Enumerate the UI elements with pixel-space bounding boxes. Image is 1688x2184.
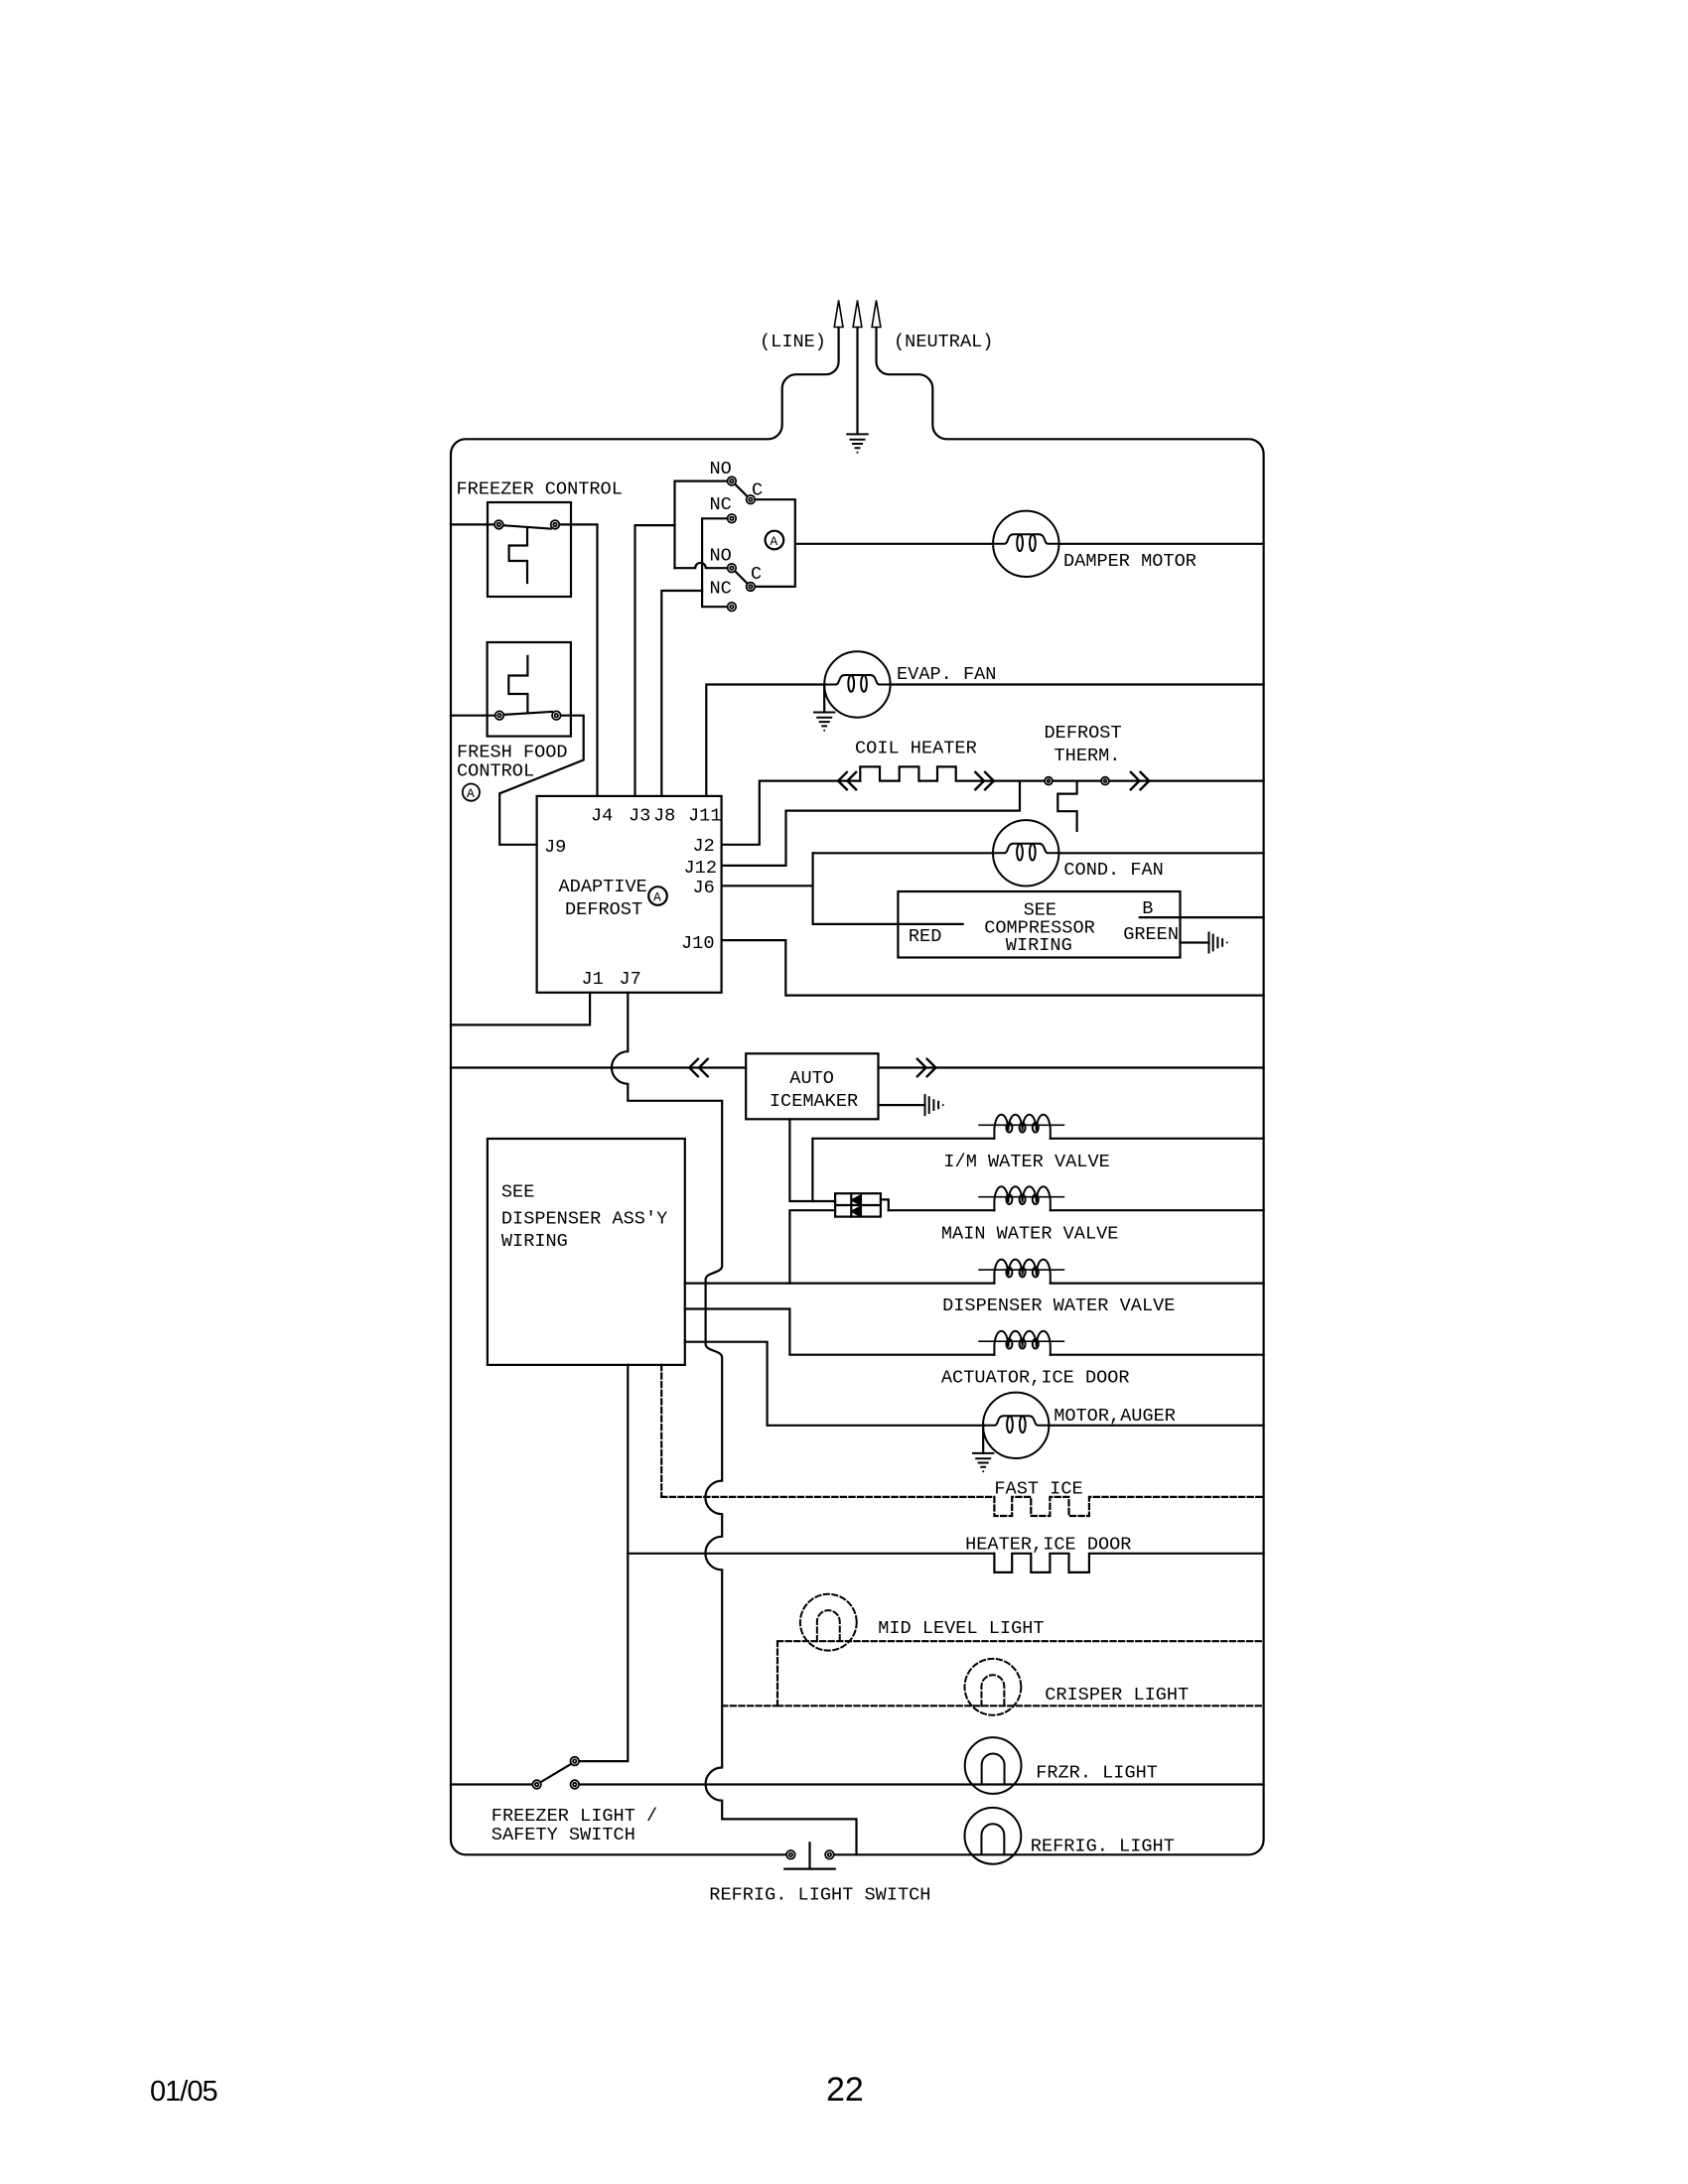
- connector chevrons after defrost thermostat: [1131, 772, 1140, 789]
- wire: left border to fresh food control: [451, 715, 495, 717]
- terminal safety switch left: [532, 1780, 541, 1789]
- terminal fresh food left: [495, 711, 504, 720]
- terminal C1: [747, 495, 756, 504]
- svg-text:AUTO: AUTO: [789, 1068, 834, 1089]
- wire: check valve to main water valve: [889, 1209, 995, 1211]
- svg-text:A: A: [467, 786, 475, 801]
- terminal NC1: [728, 514, 737, 523]
- safety switch blade: [540, 1764, 570, 1782]
- wire: cond fan to right border: [1058, 852, 1263, 854]
- coil heater element: [860, 766, 1045, 780]
- wire: freezer control to J4: [559, 524, 597, 796]
- damper motor: [993, 511, 1058, 577]
- svg-text:A: A: [770, 534, 777, 549]
- evap fan motor: [824, 651, 890, 717]
- svg-text:NC: NC: [710, 494, 732, 515]
- svg-text:J7: J7: [620, 969, 641, 990]
- wire: icemaker ground lead: [879, 1104, 925, 1106]
- wire: auger motor to right border: [1049, 1425, 1263, 1427]
- wire: fast ice dashed branch: [661, 1365, 1263, 1516]
- wire: left border to freezer light safety switch: [451, 1783, 532, 1785]
- svg-text:NO: NO: [710, 459, 732, 479]
- svg-text:NC: NC: [710, 579, 732, 600]
- svg-text:FREEZER CONTROL: FREEZER CONTROL: [457, 479, 623, 500]
- freezer control box: [488, 502, 571, 597]
- wire: defrost thermostat to right border: [1109, 779, 1264, 781]
- svg-text:DEFROST: DEFROST: [565, 899, 642, 920]
- wire: dispenser box to ice door actuator: [685, 1309, 995, 1355]
- terminal safety switch upper: [571, 1757, 580, 1766]
- wire: safety switch to freezer light and right border: [579, 1783, 1264, 1785]
- wire: dispenser box to dispenser water valve: [685, 1282, 995, 1284]
- heater ice door element: [994, 1554, 1263, 1572]
- svg-text:01/05: 01/05: [150, 2076, 217, 2108]
- check valve arrow lower: [852, 1207, 861, 1217]
- wire: branch up to I/M water valve: [812, 1139, 994, 1201]
- terminal NO2: [728, 564, 737, 573]
- wire: main water valve to right border: [1051, 1209, 1264, 1211]
- wire: between defrost thermostat terminals: [1053, 779, 1101, 781]
- refrig light lamp: [965, 1808, 1022, 1864]
- freezer control zigzag sensor: [509, 528, 527, 583]
- connector chevrons icemaker feed: [689, 1059, 698, 1076]
- check valve divider: [835, 1193, 881, 1216]
- svg-text:B: B: [1142, 898, 1153, 919]
- svg-text:RED: RED: [909, 926, 941, 947]
- wire: dispenser box to auger motor: [685, 1342, 984, 1426]
- fresh food control switch blade: [503, 712, 552, 715]
- wire: J10 to right border: [722, 940, 1264, 996]
- wire: B lead to right border: [1140, 916, 1264, 918]
- wire: fresh food control to J9: [499, 716, 584, 845]
- crisper light lamp dashed: [965, 1659, 1022, 1715]
- svg-text:CONTROL: CONTROL: [457, 761, 534, 782]
- svg-text:SEE: SEE: [501, 1182, 534, 1203]
- svg-text:J9: J9: [544, 837, 566, 858]
- svg-text:J3: J3: [629, 806, 650, 827]
- terminal defrost thermostat right: [1101, 777, 1109, 785]
- svg-text:SAFETY SWITCH: SAFETY SWITCH: [492, 1825, 635, 1845]
- wire: J12 riser to coil heater line: [722, 781, 1020, 866]
- svg-text:FRZR. LIGHT: FRZR. LIGHT: [1036, 1763, 1158, 1784]
- circled A relay: [766, 531, 784, 550]
- svg-text:(LINE): (LINE): [760, 332, 826, 352]
- svg-text:HEATER,ICE DOOR: HEATER,ICE DOOR: [965, 1535, 1131, 1556]
- terminal safety switch right: [571, 1780, 580, 1789]
- svg-text:J1: J1: [582, 969, 604, 990]
- wire: J3 to relay bracket: [635, 525, 675, 796]
- svg-text:WIRING: WIRING: [501, 1231, 568, 1252]
- svg-text:C: C: [751, 564, 762, 585]
- relay blade 2: [735, 572, 747, 584]
- circled A fresh food: [463, 784, 480, 801]
- svg-text:COIL HEATER: COIL HEATER: [855, 739, 977, 759]
- check valve arrow upper: [852, 1195, 861, 1204]
- wire: actuator to right border: [1051, 1354, 1264, 1356]
- circled A adaptive defrost: [648, 887, 667, 905]
- wire: tie to cond fan: [813, 852, 994, 854]
- freezer light lamp: [965, 1737, 1022, 1794]
- freezer control switch blade: [503, 525, 551, 528]
- connector chevrons coil heater right: [975, 772, 984, 789]
- ground: icemaker chassis ground: [925, 1095, 944, 1115]
- terminal fresh food right: [552, 711, 561, 720]
- fresh food control box: [488, 642, 571, 737]
- svg-text:CRISPER LIGHT: CRISPER LIGHT: [1045, 1685, 1189, 1706]
- actuator ice door coil: [979, 1331, 1063, 1355]
- cond fan motor: [993, 820, 1058, 886]
- wire: check valve lower feed: [789, 1210, 835, 1283]
- plug prong NEUTRAL: [872, 301, 881, 328]
- svg-text:REFRIG. LIGHT SWITCH: REFRIG. LIGHT SWITCH: [709, 1885, 930, 1906]
- terminal freezer control left: [494, 520, 503, 529]
- svg-text:J2: J2: [693, 836, 715, 857]
- auto icemaker box: [746, 1053, 878, 1119]
- svg-text:ICEMAKER: ICEMAKER: [770, 1091, 858, 1112]
- svg-text:REFRIG. LIGHT: REFRIG. LIGHT: [1031, 1837, 1175, 1857]
- ground: auger motor: [973, 1453, 993, 1472]
- wire: auger motor ground stem: [982, 1426, 984, 1453]
- ground: evap fan: [814, 713, 834, 732]
- svg-text:THERM.: THERM.: [1055, 746, 1121, 766]
- adaptive defrost control box: [537, 796, 722, 993]
- svg-text:J6: J6: [693, 878, 715, 898]
- check valve body: [835, 1193, 881, 1216]
- wire: left border to auto icemaker: [451, 1066, 746, 1068]
- wire: bracket lower with jump hump: [675, 563, 728, 568]
- svg-text:NO: NO: [710, 546, 732, 567]
- svg-text:22: 22: [826, 2071, 864, 2109]
- svg-text:J4: J4: [591, 806, 613, 827]
- svg-text:C: C: [752, 480, 763, 501]
- svg-text:ACTUATOR,ICE DOOR: ACTUATOR,ICE DOOR: [941, 1368, 1130, 1389]
- connector chevrons icemaker output: [917, 1059, 926, 1076]
- wire: J8 to NC tie: [661, 591, 702, 796]
- connector chevrons coil heater left: [838, 772, 847, 789]
- svg-text:EVAP. FAN: EVAP. FAN: [897, 664, 996, 685]
- wire: crisper dashed branch from J7: [722, 1594, 1263, 1715]
- svg-text:DAMPER MOTOR: DAMPER MOTOR: [1063, 551, 1196, 572]
- svg-text:COND. FAN: COND. FAN: [1063, 860, 1163, 881]
- wire: ground pin stem: [856, 328, 858, 434]
- wire: safety switch top contact to dispenser box: [579, 1365, 628, 1761]
- wire: damper motor to right border: [1059, 543, 1264, 545]
- svg-text:GREEN: GREEN: [1123, 924, 1179, 945]
- wire: evap fan to right border: [891, 683, 1264, 685]
- terminal C2: [747, 583, 756, 592]
- terminal NC2: [728, 603, 737, 612]
- terminal NO1: [728, 477, 737, 485]
- dispenser assy wiring box: [488, 1139, 685, 1365]
- wire: left border to freezer control: [451, 523, 494, 525]
- wire: RED lead into compressor box: [813, 923, 963, 925]
- svg-text:FAST ICE: FAST ICE: [994, 1479, 1082, 1500]
- svg-text:MOTOR,AUGER: MOTOR,AUGER: [1054, 1406, 1176, 1427]
- compressor wiring box: [898, 891, 1180, 958]
- fresh food control zigzag sensor: [508, 656, 527, 712]
- wire: J1 to left border: [451, 993, 590, 1025]
- svg-text:ADAPTIVE: ADAPTIVE: [559, 877, 647, 897]
- relay output bracket box: [756, 499, 795, 587]
- defrost relay bracket NO1-NO2: [675, 481, 728, 569]
- svg-text:J12: J12: [684, 858, 717, 879]
- svg-text:I/M WATER VALVE: I/M WATER VALVE: [943, 1152, 1109, 1172]
- wire: relay to damper motor: [795, 543, 993, 545]
- wire: AC neutral prong right S-curve and outer border right side: [834, 328, 1264, 1854]
- svg-text:DISPENSER WATER VALVE: DISPENSER WATER VALVE: [942, 1296, 1175, 1316]
- wire: AC line prong left S-curve down to outer border top-left run: [451, 328, 839, 1854]
- wire: heater ice door line: [628, 1553, 994, 1555]
- svg-text:J10: J10: [681, 933, 714, 954]
- ground: green chassis ground: [1209, 933, 1228, 953]
- wire: GREEN lead: [1181, 941, 1209, 943]
- I/M water valve coil: [979, 1115, 1063, 1139]
- wire: evap fan ground stem: [823, 685, 825, 713]
- plug prong middle (ground pin): [853, 301, 862, 328]
- terminal freezer control right: [551, 520, 560, 529]
- svg-text:(NEUTRAL): (NEUTRAL): [894, 332, 993, 352]
- svg-text:MAIN WATER VALVE: MAIN WATER VALVE: [941, 1224, 1119, 1245]
- svg-text:WIRING: WIRING: [1006, 935, 1072, 956]
- defrost thermostat bimetal step: [1057, 781, 1076, 831]
- svg-text:A: A: [653, 889, 661, 904]
- mid level light lamp dashed: [800, 1594, 857, 1651]
- terminal refrig switch left: [786, 1850, 795, 1859]
- main water valve coil: [979, 1186, 1063, 1210]
- svg-text:DEFROST: DEFROST: [1045, 723, 1122, 744]
- svg-text:DISPENSER ASS'Y: DISPENSER ASS'Y: [501, 1208, 667, 1229]
- terminal refrig switch right: [825, 1850, 834, 1859]
- wire: I/M water valve to right border: [1051, 1138, 1264, 1140]
- svg-text:FRESH FOOD: FRESH FOOD: [457, 743, 568, 763]
- check valve outlet tab: [881, 1199, 889, 1210]
- wire: J7 long run with jumps: [612, 993, 857, 1855]
- svg-text:MID LEVEL LIGHT: MID LEVEL LIGHT: [878, 1618, 1044, 1639]
- wire: J11 to evap fan: [706, 685, 824, 796]
- refrig light switch plunger: [784, 1843, 834, 1868]
- plug prong LINE: [834, 301, 843, 328]
- terminal defrost thermostat left: [1045, 777, 1053, 785]
- wire: icemaker output to right border: [879, 1066, 1264, 1068]
- svg-text:FREEZER LIGHT /: FREEZER LIGHT /: [492, 1806, 657, 1827]
- ground: mains earth: [847, 434, 867, 453]
- relay blade 1: [735, 484, 747, 496]
- svg-text:J11: J11: [688, 806, 721, 827]
- wire: J6 to cond fan tie: [722, 853, 813, 924]
- auger motor: [983, 1393, 1049, 1458]
- wire: NC1-NC2 tie: [702, 518, 727, 607]
- svg-text:J8: J8: [653, 806, 675, 827]
- wire: J2 to coil heater: [722, 781, 861, 845]
- wire: dispenser water valve to right border: [1051, 1282, 1264, 1284]
- fast ice element dashed: [994, 1497, 1263, 1516]
- wire: icemaker bottom feed to check valve: [789, 1119, 835, 1201]
- dispenser water valve coil: [979, 1260, 1063, 1284]
